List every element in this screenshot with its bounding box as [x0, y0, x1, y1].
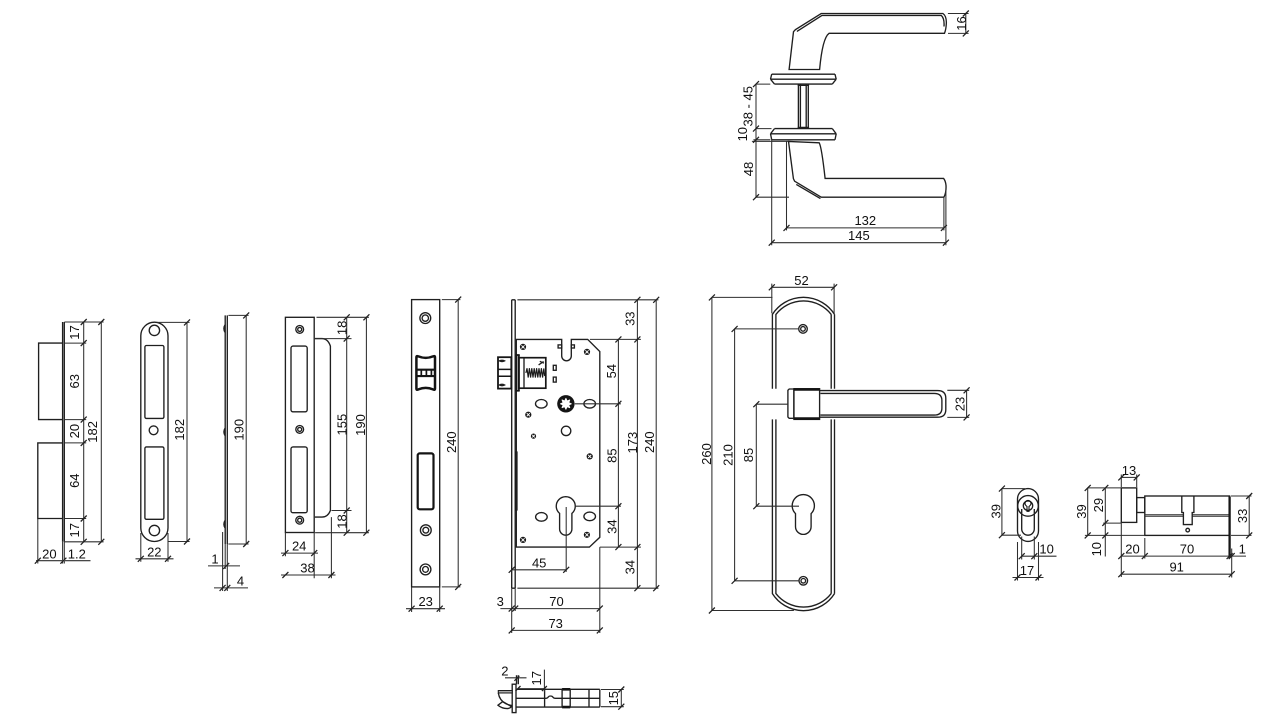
dimension line 85	[755, 404, 757, 506]
strike plate 1 front: outline	[141, 322, 168, 541]
svg-text:73: 73	[548, 616, 562, 631]
svg-text:10: 10	[1089, 542, 1104, 556]
dimension 73	[512, 629, 600, 631]
svg-text:1: 1	[211, 551, 218, 566]
lock body: lower ovals	[536, 513, 548, 522]
svg-text:190: 190	[353, 414, 368, 436]
svg-text:33: 33	[1235, 509, 1250, 523]
lock body: euro cylinder hole	[556, 497, 575, 535]
svg-text:20: 20	[42, 546, 56, 561]
svg-text:13: 13	[1122, 463, 1136, 478]
extension lines	[315, 317, 369, 532]
lock body: notch spring tabs	[558, 345, 562, 348]
dimension line 240	[655, 300, 657, 588]
svg-text:2: 2	[501, 663, 508, 678]
svg-text:1.2: 1.2	[68, 546, 86, 561]
svg-text:190: 190	[231, 419, 246, 441]
latch assembly: bolt face joint line	[544, 689, 546, 707]
latch assembly: bolt body	[516, 689, 600, 707]
strike plate 1 front: middle hole	[149, 426, 158, 435]
bottom extension lines	[285, 517, 331, 578]
dimension line 39	[1001, 489, 1003, 536]
cylinder side: knob shaft	[1137, 498, 1145, 513]
lock body: latch collar behind faceplate	[517, 355, 519, 391]
extension lines	[1002, 489, 1039, 581]
cylinder side: plug split lines	[1145, 515, 1230, 517]
lock body: deadbolt in faceplate slot	[515, 451, 517, 510]
extension lines	[1085, 475, 1252, 578]
lock body: screws	[520, 344, 593, 543]
svg-text:18: 18	[334, 321, 349, 335]
cylinder side: body	[1145, 496, 1230, 535]
svg-text:182: 182	[85, 421, 100, 443]
dimension 91	[1121, 573, 1231, 575]
dimension line 182	[100, 322, 102, 542]
lock body: small square holes	[553, 365, 556, 370]
cylinder end: body oblong	[1022, 509, 1035, 535]
lock faceplate: deadbolt cutout	[418, 453, 434, 509]
cylinder end: keyway	[1025, 500, 1031, 511]
dimension line 33/173/34	[636, 300, 638, 588]
svg-text:85: 85	[604, 448, 619, 462]
angled strike plate: latch cutout	[291, 346, 307, 412]
svg-text:23: 23	[952, 397, 967, 411]
dimension line 240	[457, 300, 459, 587]
svg-text:16: 16	[954, 16, 969, 30]
cylinder end: face circle	[1018, 496, 1039, 517]
strike plate 1 side: plate edge	[63, 322, 65, 542]
dimension 13	[1121, 476, 1136, 478]
svg-text:91: 91	[1169, 560, 1183, 575]
svg-text:4: 4	[237, 573, 244, 588]
dimension line 39	[1088, 488, 1122, 536]
lock faceplate: top screw hole	[420, 313, 431, 324]
svg-text:132: 132	[854, 213, 876, 228]
dimension 3 / 70	[500, 608, 599, 610]
dimension 24	[281, 552, 318, 554]
strike plate 1 front: top screw hole	[149, 325, 159, 335]
dimension 17	[1013, 577, 1044, 579]
latch assembly: bolt head with bevel	[498, 691, 512, 694]
bottom extension lines	[223, 532, 228, 591]
extension lines right	[517, 300, 658, 588]
lock faceplate: latch bolt spool	[416, 356, 435, 390]
dimension 16	[948, 14, 969, 34]
bottom extension lines	[772, 140, 946, 245]
strike plate 2 side: plate edge	[225, 315, 227, 544]
cylinder side: pin hole	[1186, 528, 1190, 532]
cylinder side: cam edge	[1228, 497, 1230, 558]
dimension line 210	[734, 329, 736, 581]
backplate: euro keyhole	[792, 495, 814, 535]
dimension 20 (lip depth)	[36, 560, 91, 562]
svg-text:39: 39	[1074, 504, 1089, 518]
cylinder side: thumbturn knob	[1121, 488, 1136, 523]
dimension 52	[772, 284, 834, 314]
dimension line 190	[245, 315, 247, 544]
handle pair: spindle	[798, 84, 810, 129]
dimension 1	[208, 565, 240, 567]
dimension 145	[772, 242, 946, 244]
angled strike plate: screw hole top	[296, 326, 304, 334]
backplate: bottom screw hole	[799, 577, 808, 586]
extension lines	[64, 322, 103, 542]
lock body: latch spring	[526, 368, 545, 377]
svg-text:240: 240	[642, 431, 657, 453]
svg-text:45: 45	[532, 555, 546, 570]
extension lines left	[712, 297, 799, 610]
backplate: inner contour	[776, 301, 831, 607]
svg-text:85: 85	[741, 448, 756, 462]
lever: bar	[820, 391, 946, 418]
handle pair: lower lever	[789, 141, 947, 197]
strike plate 1 side: latch lip box	[39, 343, 63, 420]
dimension 38	[281, 574, 336, 576]
lock body: spindle hub with star follower	[557, 395, 574, 412]
dimension 23	[406, 608, 445, 610]
dimension 4	[214, 587, 248, 589]
svg-text:63: 63	[67, 374, 82, 388]
dimension 15 (latch height)	[601, 690, 624, 707]
latch assembly: collar segment	[562, 689, 570, 707]
backplate: top screw hole	[799, 325, 808, 334]
dimension line 17/63/20/64/17	[83, 322, 85, 542]
svg-text:1: 1	[1239, 542, 1246, 557]
svg-text:34: 34	[622, 560, 637, 574]
svg-text:10: 10	[735, 127, 750, 141]
lock faceplate: screw hole mid	[420, 525, 431, 536]
dimension line 54/85/34	[617, 339, 619, 547]
extension lines	[158, 322, 190, 541]
svg-text:260: 260	[699, 443, 714, 465]
svg-text:18: 18	[334, 514, 349, 528]
dimension 45 leader	[512, 507, 567, 572]
svg-text:17: 17	[1020, 563, 1034, 578]
cylinder side: mounting screw slot	[1182, 496, 1194, 525]
angled strike plate: deadbolt cutout	[291, 447, 307, 513]
cylinder end: plug circle	[1023, 501, 1032, 510]
handle pair: upper rose	[771, 74, 837, 84]
svg-text:24: 24	[292, 539, 306, 554]
bottom extension lines	[141, 533, 168, 562]
dimension line 29 / 10	[1104, 488, 1106, 557]
dimension line 38-45 / 10 / 48	[755, 84, 757, 197]
dimension 23 (lever)	[947, 390, 969, 417]
svg-text:20: 20	[67, 424, 82, 438]
svg-text:64: 64	[67, 473, 82, 487]
countersink bumps	[224, 325, 225, 529]
svg-text:145: 145	[848, 228, 870, 243]
latch assembly: cross pin	[588, 689, 590, 707]
extension lines	[228, 315, 248, 544]
lever: bar inner line	[820, 393, 942, 415]
latch assembly: flange plate	[512, 684, 516, 712]
dimension 132	[787, 227, 944, 229]
svg-text:39: 39	[988, 504, 1003, 518]
handle pair: lower rose	[771, 129, 837, 140]
svg-text:70: 70	[549, 594, 563, 609]
extension lines	[442, 300, 461, 587]
bottom extension lines	[38, 519, 65, 564]
angled strike plate: screw hole bottom	[296, 516, 304, 524]
svg-text:173: 173	[625, 432, 640, 454]
svg-text:52: 52	[794, 273, 808, 288]
svg-text:38: 38	[300, 561, 314, 576]
dimension line 182	[186, 322, 188, 541]
extension lines left	[752, 84, 789, 197]
lock body: latch retainer pin	[539, 361, 544, 365]
lock body: latch bolt head	[498, 357, 511, 388]
svg-text:54: 54	[604, 364, 619, 378]
angled strike plate: bent lip	[315, 339, 331, 517]
strike plate 1 side: deadbolt lip box	[38, 443, 63, 519]
svg-text:23: 23	[418, 594, 432, 609]
svg-text:17: 17	[67, 325, 82, 339]
svg-text:48: 48	[741, 162, 756, 176]
svg-text:33: 33	[622, 311, 637, 325]
dimension line 190	[365, 317, 367, 532]
svg-text:38 - 45: 38 - 45	[740, 86, 755, 126]
lock faceplate: screw hole bottom	[420, 564, 431, 575]
svg-text:240: 240	[444, 431, 459, 453]
angled strike plate: main face outline	[285, 317, 314, 532]
lock body: case outline with top notch and chamfers	[516, 339, 600, 547]
cylinder end: housing silhouette	[1018, 489, 1039, 542]
angled strike plate: screw hole middle	[296, 426, 304, 434]
svg-text:34: 34	[604, 519, 619, 533]
handle pair: upper lever chamfer line	[797, 15, 944, 31]
svg-text:3: 3	[497, 594, 504, 609]
strike plate 1 front: latch cutout	[145, 346, 164, 419]
svg-text:17: 17	[529, 671, 544, 685]
dimension line 33	[1248, 496, 1250, 535]
strike plate 1 front: deadbolt cutout	[145, 447, 164, 519]
lock body: latch tail box	[519, 358, 546, 389]
dimension line 260	[711, 297, 713, 610]
lock body: circle below hub	[561, 426, 570, 435]
strike plate 1 front: bottom screw hole	[149, 525, 159, 535]
svg-text:182: 182	[172, 419, 187, 441]
lever: neck collar	[788, 389, 794, 418]
svg-text:15: 15	[606, 691, 621, 705]
lock body: faceplate edge-on	[512, 300, 516, 588]
handle pair: lower lever chamfer line	[796, 184, 820, 198]
handle pair: upper lever	[789, 14, 946, 70]
latch assembly: guide pin above	[517, 675, 519, 684]
dimension 17 (latch)	[517, 670, 544, 692]
svg-text:17: 17	[67, 523, 82, 537]
dimension line 18/155/18	[346, 317, 348, 532]
svg-text:10: 10	[1039, 542, 1053, 557]
dimension 20 / 70 / 1	[1121, 555, 1246, 557]
lock faceplate: outline	[412, 300, 440, 587]
dimension 2	[505, 677, 527, 679]
dimension 22	[136, 558, 174, 560]
dimension 10	[1022, 555, 1057, 557]
lock body: hub side ovals	[536, 400, 548, 409]
svg-text:20: 20	[1125, 542, 1139, 557]
latch assembly: tail end	[599, 689, 601, 707]
svg-text:22: 22	[147, 544, 161, 559]
bottom extension lines	[512, 547, 600, 633]
svg-text:210: 210	[720, 444, 735, 466]
svg-text:155: 155	[334, 414, 349, 436]
svg-text:29: 29	[1091, 498, 1106, 512]
lever: collar block	[794, 389, 820, 420]
svg-text:70: 70	[1180, 542, 1194, 557]
bottom extension lines	[412, 587, 440, 612]
backplate: outer outline	[772, 297, 834, 610]
